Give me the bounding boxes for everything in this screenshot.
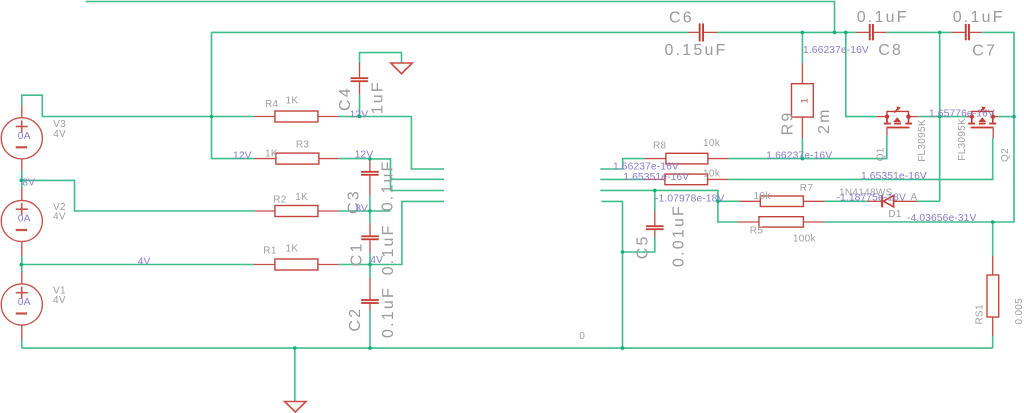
wire to Q1 drain bbox=[846, 32, 877, 116]
wire 8V row bbox=[21, 180, 255, 211]
capacitor C8 bbox=[856, 9, 909, 59]
resistor R9 bbox=[780, 63, 834, 138]
wire C2 bottom to bus bbox=[369, 311, 371, 349]
svg-text:R2: R2 bbox=[273, 195, 287, 206]
wire C5 top bbox=[654, 190, 656, 211]
wire R9 bottom bbox=[801, 138, 803, 159]
resistor R5 bbox=[738, 217, 825, 245]
svg-text:R1: R1 bbox=[263, 246, 277, 257]
svg-text:C4: C4 bbox=[337, 86, 354, 111]
node gnd at ground branch bbox=[293, 346, 297, 350]
voltage source V2 bbox=[1, 188, 66, 256]
wire R1 right bbox=[339, 264, 370, 266]
svg-text:8V: 8V bbox=[22, 178, 35, 189]
wire C1 bottom bbox=[369, 253, 371, 265]
svg-text:100k: 100k bbox=[793, 234, 817, 245]
svg-text:R5: R5 bbox=[750, 226, 764, 237]
svg-text:10k: 10k bbox=[703, 169, 721, 180]
node 4V at C1 bbox=[368, 263, 372, 267]
resistor R3 bbox=[255, 140, 338, 165]
wire R4 right to stub bbox=[338, 117, 444, 170]
svg-text:4V: 4V bbox=[53, 295, 66, 306]
node at C5 top bbox=[653, 189, 657, 193]
ground near C4 bbox=[391, 63, 413, 74]
node 12V at C3 top bbox=[368, 157, 372, 161]
svg-text:2m: 2m bbox=[816, 107, 833, 134]
svg-text:0.01uF: 0.01uF bbox=[671, 204, 688, 267]
wire R7 branch bbox=[718, 200, 739, 202]
svg-text:4V: 4V bbox=[370, 255, 383, 266]
wire RS1 top bbox=[992, 222, 994, 256]
node gnd at x=622 bbox=[621, 346, 625, 350]
wire R3 right to C3 bbox=[338, 158, 370, 160]
svg-text:R7: R7 bbox=[800, 183, 814, 194]
svg-text:1K: 1K bbox=[286, 244, 299, 255]
node 8V at V2 bbox=[20, 179, 24, 183]
wire C2 top bbox=[369, 265, 371, 278]
svg-text:1K: 1K bbox=[295, 192, 308, 203]
wire row y=190 to R5 bbox=[600, 190, 738, 222]
node at Q1 drain bbox=[938, 115, 942, 119]
svg-text:0.1uF: 0.1uF bbox=[380, 286, 397, 338]
node at C8 C7 join bbox=[938, 31, 942, 35]
svg-text:C1: C1 bbox=[349, 241, 366, 266]
svg-text:0.1uF: 0.1uF bbox=[380, 223, 397, 275]
capacitor C6 bbox=[665, 9, 728, 59]
wire C4 bottom bbox=[359, 95, 361, 117]
svg-text:4V: 4V bbox=[53, 212, 66, 223]
wire C5 bottom bbox=[623, 237, 655, 252]
svg-text:4V: 4V bbox=[53, 129, 66, 140]
svg-text:RS1: RS1 bbox=[975, 304, 986, 324]
svg-text:1.66237e-16V: 1.66237e-16V bbox=[613, 162, 679, 173]
transistor Q1 bbox=[875, 106, 928, 161]
node at R9 bottom bbox=[801, 157, 805, 161]
wire vertical x=940 bbox=[939, 32, 941, 201]
capacitor C3 bbox=[361, 160, 379, 195]
svg-text:0A: 0A bbox=[18, 131, 31, 142]
svg-text:C5: C5 bbox=[635, 234, 652, 259]
node at top rail join bbox=[833, 31, 837, 35]
svg-text:R9: R9 bbox=[780, 111, 797, 136]
svg-text:12V: 12V bbox=[350, 109, 369, 120]
wire bottom ground bus bbox=[22, 347, 993, 349]
svg-text:10k: 10k bbox=[703, 138, 721, 149]
wire stub to R8 bbox=[600, 159, 644, 169]
svg-text:-1.18775e-18V: -1.18775e-18V bbox=[837, 192, 906, 203]
resistor R7 bbox=[739, 183, 824, 207]
svg-text:1.66237e-16V: 1.66237e-16V bbox=[766, 151, 832, 162]
capacitor C5 bbox=[646, 211, 664, 236]
wire R7 to D1 bbox=[824, 200, 866, 202]
svg-text:1: 1 bbox=[800, 98, 811, 103]
capacitor C7 bbox=[951, 9, 1005, 59]
wire main 12V rail y=32 bbox=[212, 31, 689, 33]
svg-text:A: A bbox=[911, 192, 918, 203]
svg-text:1.66237e-16V: 1.66237e-16V bbox=[803, 45, 869, 56]
wire between C6 and C8 bbox=[717, 31, 856, 33]
svg-text:0.1uF: 0.1uF bbox=[857, 9, 909, 26]
wire RS1 bottom bbox=[992, 336, 994, 348]
svg-text:1.65351e-16V: 1.65351e-16V bbox=[861, 171, 927, 182]
svg-text:Q1: Q1 bbox=[875, 147, 886, 161]
resistor R6 bbox=[644, 169, 728, 185]
svg-text:Q2: Q2 bbox=[1000, 148, 1011, 162]
wire stub to bus x=622 bbox=[601, 201, 622, 348]
svg-text:0.1uF: 0.1uF bbox=[953, 9, 1005, 26]
svg-text:-4.03656e-31V: -4.03656e-31V bbox=[907, 213, 976, 224]
wire Q2 right bbox=[998, 116, 1014, 118]
wire V3 plus to R4 row bbox=[22, 95, 254, 116]
voltage source V1 bbox=[1, 272, 66, 339]
node gnd at C5 bus bbox=[621, 250, 625, 254]
wire 12V jog with stubs bbox=[370, 159, 391, 191]
svg-text:FL3095K: FL3095K bbox=[957, 118, 968, 161]
resistor R8 bbox=[645, 138, 729, 164]
svg-text:C8: C8 bbox=[878, 42, 903, 59]
wire right edge loop C7 to R5 row bbox=[825, 32, 1015, 222]
wire 4V row bbox=[21, 264, 254, 266]
wire left column x=211 down to R3 bbox=[212, 32, 255, 158]
diode D1 bbox=[839, 188, 918, 220]
svg-text:1.65351e-16V: 1.65351e-16V bbox=[623, 172, 689, 183]
svg-text:12V: 12V bbox=[233, 151, 252, 162]
wire V3 minus to V2 plus bbox=[21, 170, 23, 188]
svg-text:0.005: 0.005 bbox=[1014, 298, 1024, 325]
node at R9 top bbox=[801, 31, 805, 35]
svg-text:0: 0 bbox=[579, 331, 585, 342]
resistor R1 bbox=[254, 244, 339, 271]
svg-text:1uF: 1uF bbox=[369, 80, 386, 114]
resistor RS1 bbox=[975, 256, 1024, 336]
wire R8 right to Q1 gate bbox=[728, 136, 887, 159]
wire stub y=190 bbox=[391, 190, 445, 192]
svg-text:1.65776e-16V: 1.65776e-16V bbox=[929, 108, 995, 119]
wire V2 minus to V1 plus bbox=[21, 256, 23, 272]
node 12V at C4 bbox=[358, 115, 362, 119]
svg-text:R8: R8 bbox=[653, 140, 667, 151]
resistor R4 bbox=[254, 96, 338, 123]
wire stub y=179 bbox=[391, 178, 445, 180]
wire ground branch bbox=[294, 348, 296, 401]
svg-text:10k: 10k bbox=[754, 191, 772, 202]
capacitor C4 bbox=[351, 63, 369, 95]
svg-text:0A: 0A bbox=[18, 214, 31, 225]
node at Q2 drain bbox=[1012, 115, 1016, 119]
wire C3 bottom to C1 top bbox=[369, 195, 371, 223]
wire stub to R6 bbox=[600, 178, 644, 180]
node 12V at R4 left bbox=[210, 115, 214, 119]
ground bottom bbox=[285, 402, 306, 412]
node at Q1 gate rail bbox=[844, 31, 848, 35]
svg-text:-1.07978e-18V: -1.07978e-18V bbox=[655, 194, 724, 205]
svg-text:1K: 1K bbox=[265, 148, 278, 159]
capacitor C2 bbox=[361, 278, 379, 311]
wire 4V jog to stub bbox=[370, 201, 444, 264]
wire R2 right to 8V stub bbox=[338, 210, 390, 212]
svg-text:FL3095K: FL3095K bbox=[917, 119, 928, 162]
resistor R2 bbox=[255, 192, 339, 216]
node at R7 left bbox=[716, 200, 720, 204]
node at RS1 top bbox=[991, 220, 995, 224]
svg-text:C2: C2 bbox=[347, 307, 364, 332]
wire V1 minus to ground bus bbox=[21, 339, 23, 348]
svg-text:C7: C7 bbox=[972, 43, 997, 60]
wire R9 top bbox=[801, 32, 803, 62]
svg-text:8V: 8V bbox=[355, 203, 368, 214]
svg-text:0A: 0A bbox=[18, 297, 31, 308]
svg-text:0.15uF: 0.15uF bbox=[665, 42, 728, 59]
wire C4 top to ground bbox=[360, 53, 402, 63]
wire R6 right to Q2 source bbox=[728, 138, 992, 179]
svg-text:R3: R3 bbox=[296, 140, 310, 151]
svg-text:0.1uF: 0.1uF bbox=[380, 159, 397, 211]
wire between C8 and C7 bbox=[887, 31, 952, 33]
svg-text:1K: 1K bbox=[286, 96, 299, 107]
capacitor C1 bbox=[361, 223, 379, 253]
svg-text:R4: R4 bbox=[265, 99, 279, 110]
wire D1 to vertical bbox=[918, 200, 940, 202]
wire Q1 right bbox=[919, 116, 940, 118]
voltage source V3 bbox=[1, 105, 66, 170]
node 4V at V1 bbox=[20, 263, 24, 267]
node 8V at C3 bottom bbox=[368, 209, 372, 213]
svg-text:D1: D1 bbox=[888, 209, 902, 220]
transistor Q2 bbox=[957, 106, 1011, 162]
wire top rail bbox=[86, 2, 835, 33]
svg-text:C6: C6 bbox=[669, 9, 694, 26]
svg-text:12V: 12V bbox=[355, 149, 374, 160]
node gnd at C2 bbox=[368, 346, 372, 350]
wire Q2 left bbox=[940, 116, 967, 118]
svg-text:4V: 4V bbox=[138, 256, 151, 267]
